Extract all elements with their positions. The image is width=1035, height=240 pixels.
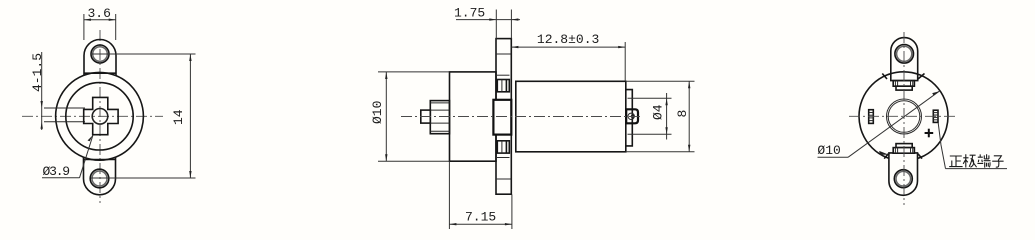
svg-text:1.75: 1.75 bbox=[454, 6, 485, 21]
svg-text:3.6: 3.6 bbox=[88, 6, 111, 21]
svg-text:4-1.5: 4-1.5 bbox=[30, 53, 45, 92]
svg-text:7.15: 7.15 bbox=[465, 210, 496, 225]
svg-text:Ø4: Ø4 bbox=[651, 104, 666, 120]
svg-text:12.8±0.3: 12.8±0.3 bbox=[537, 32, 599, 47]
svg-text:14: 14 bbox=[171, 109, 186, 125]
svg-text:Ø10: Ø10 bbox=[370, 101, 385, 124]
svg-text:Ø10: Ø10 bbox=[817, 143, 840, 158]
svg-text:8: 8 bbox=[675, 110, 690, 118]
svg-text:Ø3.9: Ø3.9 bbox=[43, 164, 70, 179]
